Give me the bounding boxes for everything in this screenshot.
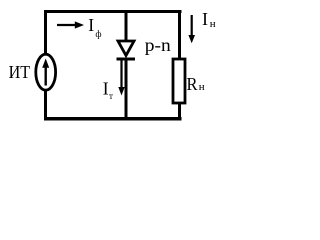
- current source U1 circle: [36, 54, 56, 90]
- current source arrow: [42, 59, 49, 86]
- svg-text:I: I: [202, 9, 208, 29]
- current arrow Iф: [57, 21, 84, 28]
- diode VD p-n triangle: [118, 41, 134, 56]
- label Iн: [202, 9, 216, 30]
- label Iф: [88, 15, 101, 40]
- diode cathode bar: [117, 58, 136, 61]
- svg-text:I: I: [88, 15, 94, 35]
- resistor Rн: [173, 59, 185, 103]
- svg-text:I: I: [103, 78, 109, 98]
- wire diode branch lower: [125, 60, 128, 120]
- current arrow Iн: [188, 15, 195, 43]
- wire left lower: [44, 90, 47, 121]
- label Rн: [187, 74, 205, 94]
- wire left upper: [44, 10, 47, 54]
- svg-text:т: т: [109, 91, 113, 101]
- wire diode branch upper: [125, 10, 128, 41]
- svg-text:н: н: [210, 18, 216, 30]
- wire bottom: [44, 117, 182, 121]
- wire right upper: [178, 10, 181, 58]
- svg-text:ф: ф: [95, 29, 101, 40]
- current arrow Iт: [118, 60, 124, 96]
- svg-text:R: R: [187, 74, 198, 94]
- wire top: [44, 10, 182, 13]
- svg-text:н: н: [199, 81, 205, 93]
- wire right lower: [178, 104, 181, 121]
- svg-text:ИТ: ИТ: [9, 62, 31, 82]
- svg-text:p-n: p-n: [145, 35, 171, 55]
- label Iт: [103, 78, 113, 101]
